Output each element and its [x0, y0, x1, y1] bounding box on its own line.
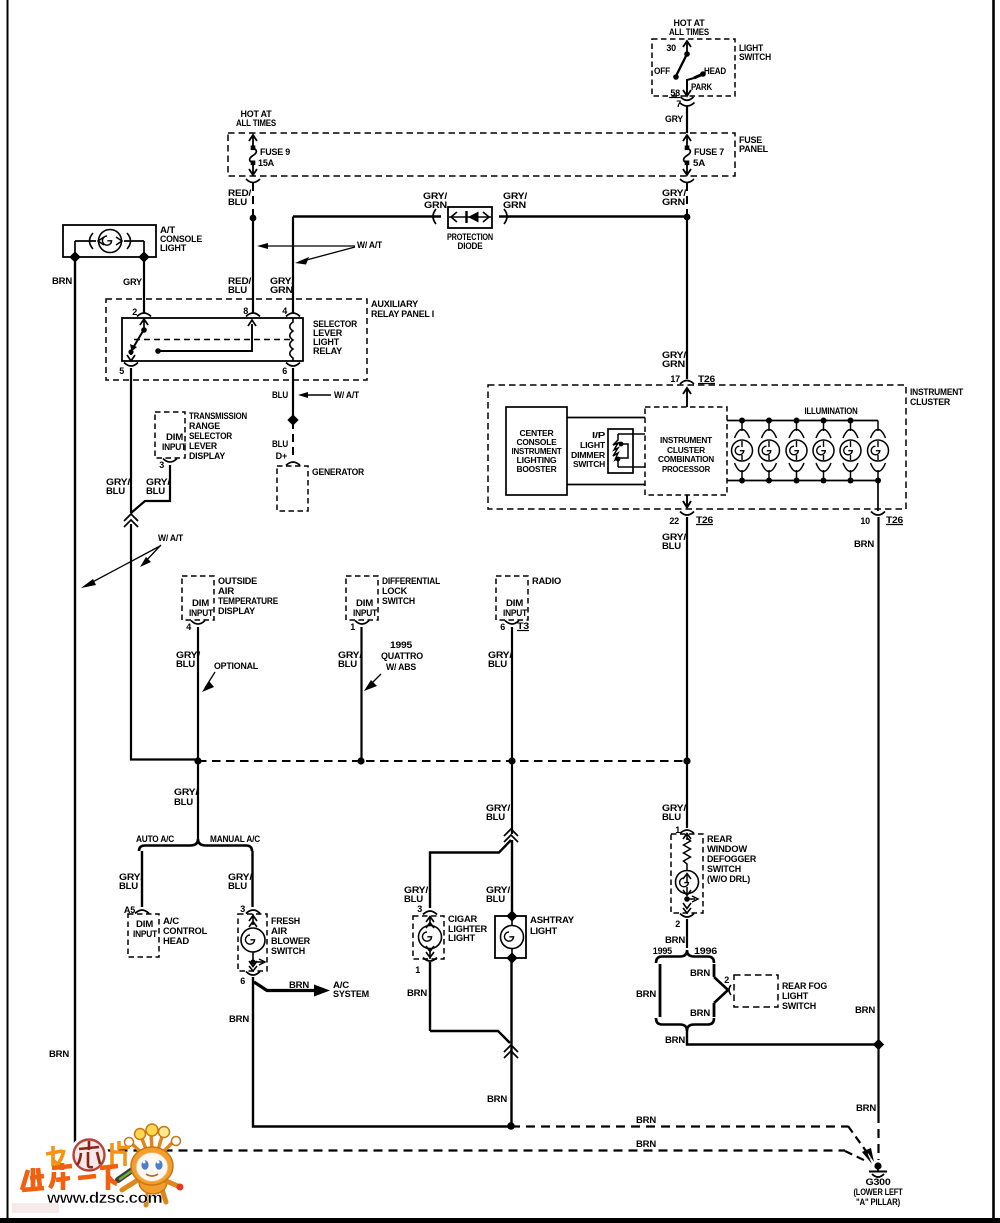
svg-text:DISPLAY: DISPLAY	[218, 606, 255, 616]
relay pin 6	[282, 363, 300, 377]
svg-text:LIGHT: LIGHT	[160, 243, 187, 253]
fuse panel box	[228, 133, 735, 176]
differential lock switch label	[382, 576, 441, 606]
wire BRN left rail (console light to bottom)	[49, 257, 75, 1149]
svg-text:BRN: BRN	[229, 1014, 249, 1024]
svg-text:LIGHT: LIGHT	[448, 933, 476, 943]
svg-text:1: 1	[415, 965, 420, 975]
wire BRN dashed lower run to ground	[511, 1115, 874, 1162]
cigar lighter light label	[448, 914, 488, 943]
inline connector on merged BRN wire	[504, 1045, 518, 1058]
watermark pale band	[12, 1203, 59, 1213]
rear window defogger switch label	[707, 834, 757, 884]
svg-text:SWITCH: SWITCH	[271, 946, 305, 956]
junction dim bus at diff lock	[357, 757, 364, 764]
svg-text:3: 3	[159, 460, 164, 470]
inline connector on GRY/BLU wire	[124, 514, 138, 527]
svg-text:30: 30	[666, 43, 676, 53]
svg-text:ASHTRAY: ASHTRAY	[530, 915, 574, 925]
svg-text:RELAY PANEL I: RELAY PANEL I	[371, 309, 434, 319]
svg-text:AIR: AIR	[271, 926, 288, 936]
junction lamp L5 bottom bus	[848, 478, 854, 484]
note W/ A/T with arrows to wires	[257, 240, 383, 265]
svg-text:HEAD: HEAD	[704, 66, 727, 76]
wire RED/BLU dashed from fuse 9	[228, 183, 253, 217]
svg-text:LEVER: LEVER	[189, 441, 218, 451]
svg-text:BRN: BRN	[854, 539, 874, 549]
cigar lighter light pin 3	[417, 904, 437, 915]
wire branch to cigar lighter	[430, 840, 511, 908]
illumination lamp bus lower	[727, 480, 879, 482]
svg-text:BRN: BRN	[636, 989, 656, 999]
node HOT AT ALL TIMES (light switch feed)	[669, 18, 709, 37]
wire GRY/GRN to instrument cluster pin 17	[662, 217, 687, 379]
junction lamp L2 bottom bus	[766, 478, 772, 484]
svg-text:BLU: BLU	[176, 659, 195, 669]
junction on fuse9 wire	[250, 215, 257, 222]
junction at console light left leg	[69, 251, 80, 262]
junction dim bus at OAT	[194, 757, 201, 764]
svg-text:"A" PILLAR): "A" PILLAR)	[856, 1197, 900, 1207]
illumination lamp L5	[840, 421, 861, 481]
svg-text:(LOWER LEFT: (LOWER LEFT	[854, 1187, 904, 1197]
svg-text:58: 58	[670, 88, 680, 98]
watermark text 维库一下	[22, 1163, 118, 1190]
wire BRN cigar joins ashtray	[430, 1031, 510, 1043]
wire GRY console light to relay pin 2	[123, 257, 144, 313]
fresh air blower switch lamp	[241, 914, 265, 971]
svg-text:RELAY: RELAY	[313, 346, 342, 356]
svg-text:QUATTRO: QUATTRO	[381, 651, 423, 661]
light switch blade OFF contact	[654, 51, 690, 80]
border frame bottom	[0, 1218, 1000, 1223]
booster label	[512, 429, 562, 474]
dim input bus dashed wire	[198, 760, 687, 762]
svg-text:5: 5	[119, 366, 124, 376]
relay switch blade	[127, 319, 148, 361]
svg-text:DIFFERENTIAL: DIFFERENTIAL	[382, 576, 441, 586]
note W/ A/T arrows lower	[81, 533, 184, 588]
connector below fuse 9	[246, 179, 260, 183]
svg-text:LIGHT: LIGHT	[782, 991, 809, 1001]
svg-text:5A: 5A	[693, 158, 706, 168]
mascot head	[131, 1147, 173, 1185]
svg-text:BLU: BLU	[272, 390, 288, 400]
svg-text:BLU: BLU	[119, 881, 138, 891]
wire GRY/GRN right of protection diode	[499, 191, 687, 217]
connector below light switch pin 7	[676, 97, 694, 109]
note 1995 QUATTRO W/ ABS with arrow	[364, 640, 423, 691]
svg-text:1: 1	[350, 622, 355, 632]
svg-text:COMBINATION: COMBINATION	[658, 455, 714, 464]
cluster return arrow processor to pin 22	[683, 495, 691, 508]
junction lamp L2 top bus	[766, 418, 772, 424]
junction lamp L4 top bus	[821, 418, 827, 424]
mascot antennae	[125, 1124, 181, 1155]
svg-text:BLU: BLU	[662, 541, 681, 551]
svg-text:CONSOLE: CONSOLE	[517, 438, 558, 447]
wire BRN dashed left rail run to ground	[75, 1139, 872, 1164]
relay pin 5	[119, 363, 138, 377]
svg-text:BRN: BRN	[855, 1005, 875, 1015]
svg-text:BRN: BRN	[487, 1094, 507, 1104]
light switch pin 58 label	[669, 88, 680, 98]
mascot body	[118, 1168, 184, 1205]
svg-text:W/ A/T: W/ A/T	[334, 390, 360, 400]
A/C control head pin A5	[124, 905, 149, 915]
svg-text:INSTRUMENT: INSTRUMENT	[910, 387, 964, 397]
light switch label	[739, 43, 771, 62]
svg-text:DIODE: DIODE	[458, 241, 483, 251]
svg-text:LIGHTING: LIGHTING	[517, 456, 557, 465]
selector lever light relay K1 inner box	[122, 318, 303, 361]
light switch S1 box	[652, 39, 735, 96]
auxiliary relay panel box	[106, 299, 367, 380]
illumination lamp bus upper	[727, 420, 878, 422]
svg-text:4: 4	[186, 622, 191, 632]
svg-text:RADIO: RADIO	[532, 576, 561, 586]
svg-text:T26: T26	[698, 374, 715, 384]
wire GRY/BLU down to A/C split	[131, 524, 198, 760]
svg-text:INPUT: INPUT	[189, 608, 214, 618]
svg-text:www.dzsc.com: www.dzsc.com	[46, 1190, 162, 1207]
wire BLU dashed to generator	[272, 421, 293, 459]
svg-text:2: 2	[132, 307, 137, 317]
svg-text:22: 22	[669, 516, 679, 526]
defogger switch pin 1	[675, 825, 694, 835]
wire BRN dashed right rail to ground	[877, 1114, 879, 1160]
note BLU / W/ A/T arrow	[272, 390, 360, 400]
fuse panel label	[739, 135, 769, 154]
svg-text:6: 6	[282, 366, 287, 376]
svg-text:BRN: BRN	[52, 276, 72, 286]
svg-text:BRN: BRN	[49, 1049, 69, 1059]
svg-text:3: 3	[417, 904, 422, 914]
cigar lighter light lamp	[419, 916, 442, 959]
center console instrument lighting booster box	[506, 407, 567, 495]
merge brace bottom	[656, 1018, 714, 1031]
wire BRN 1996 branch lower	[690, 1003, 714, 1018]
instrument cluster combination processor box	[645, 407, 727, 495]
junction fuse7 wire / diode wire	[684, 214, 691, 221]
fuse F9 15A	[249, 135, 290, 175]
svg-text:RANGE: RANGE	[189, 421, 220, 431]
wire BRN 1996 branch upper	[690, 964, 714, 978]
selector lever light relay label	[313, 319, 358, 356]
junction lamp L3 top bus	[794, 418, 800, 424]
svg-text:17: 17	[670, 374, 680, 384]
svg-text:BLOWER: BLOWER	[271, 936, 311, 946]
I/P light dimmer switch label	[571, 431, 606, 469]
wire GRY/BLU to ashtray light	[511, 840, 513, 916]
A/C control head DIM INPUT box	[128, 914, 159, 957]
svg-text:CENTER: CENTER	[520, 429, 554, 438]
fresh air blower switch label	[271, 916, 311, 956]
svg-text:CONTROL: CONTROL	[163, 926, 208, 936]
svg-text:6: 6	[500, 622, 505, 632]
svg-text:BLU: BLU	[662, 812, 681, 822]
svg-text:BRN: BRN	[289, 980, 309, 990]
svg-text:BRN: BRN	[665, 1035, 685, 1045]
OAT display label	[218, 576, 278, 616]
wire GRY/GRN down to relay pin 4	[270, 217, 295, 314]
svg-text:BLU: BLU	[228, 881, 247, 891]
svg-text:INSTRUMENT: INSTRUMENT	[512, 447, 562, 456]
svg-text:GRY: GRY	[123, 277, 142, 287]
instrument cluster pin 10 T26	[860, 512, 903, 527]
svg-text:INPUT: INPUT	[162, 442, 187, 452]
diff lock DIM INPUT terminal pin 1	[350, 598, 377, 632]
svg-text:6: 6	[240, 976, 245, 986]
svg-text:DIM: DIM	[506, 598, 523, 608]
illumination lamp L1	[732, 421, 753, 481]
wire BRN from ashtray light	[487, 958, 512, 1126]
wire GRY/BLU from display pin 3	[131, 465, 171, 513]
fresh air blower switch pin 3	[240, 904, 260, 914]
A/T console light bulb	[75, 230, 144, 257]
svg-text:GRY/: GRY/	[174, 787, 199, 797]
svg-text:FUSE 9: FUSE 9	[260, 147, 290, 157]
wire booster to processor lower	[567, 484, 645, 486]
wire GRY/BLU auto A/C branch	[119, 851, 144, 907]
watermark magnifier with 芯	[72, 1138, 107, 1173]
svg-text:D+: D+	[276, 451, 287, 461]
inline connector on radio wire below bus	[486, 761, 518, 842]
transmission display label	[189, 411, 247, 461]
wire GRY/BLU from OAT display	[176, 627, 201, 761]
wire from lamp bus down to pin 10	[877, 480, 879, 511]
svg-text:CLUSTER: CLUSTER	[667, 446, 705, 455]
svg-text:BLU: BLU	[272, 439, 288, 449]
svg-text:SWITCH: SWITCH	[573, 460, 605, 469]
note OPTIONAL with arrow	[202, 661, 259, 692]
svg-text:G300: G300	[866, 1177, 891, 1187]
svg-text:BLU: BLU	[486, 812, 505, 822]
generator box	[277, 466, 308, 511]
svg-text:T26: T26	[696, 515, 713, 525]
svg-text:REAR FOG: REAR FOG	[782, 981, 827, 991]
svg-text:BLU: BLU	[106, 486, 125, 496]
rear window defogger switch box	[671, 834, 703, 913]
svg-text:BLU: BLU	[488, 659, 507, 669]
wire GRY/GRN left of protection diode	[293, 191, 448, 217]
svg-text:WINDOW: WINDOW	[707, 844, 748, 854]
svg-text:LIGHT: LIGHT	[580, 441, 605, 450]
relay actuation dashed link	[134, 339, 290, 341]
wire GRY/BLU from diff lock switch	[338, 627, 363, 761]
instrument cluster box	[488, 385, 906, 509]
lamp: A/T console light box	[63, 225, 156, 257]
cigar lighter light box	[413, 916, 444, 959]
svg-text:OPTIONAL: OPTIONAL	[214, 661, 259, 671]
svg-text:OFF: OFF	[654, 66, 671, 76]
svg-text:LOCK: LOCK	[382, 586, 408, 596]
wire GRY/BLU manual A/C branch	[228, 851, 253, 907]
illumination lamp L6	[868, 421, 889, 481]
watermark text 片	[112, 1141, 130, 1166]
label GRY/BLU cigar branch	[404, 885, 429, 904]
svg-text:I/P: I/P	[592, 431, 606, 440]
svg-text:AUTO A/C: AUTO A/C	[136, 834, 175, 844]
svg-text:AIR: AIR	[218, 586, 235, 596]
border frame left	[7, 0, 9, 1223]
svg-text:GRN: GRN	[424, 200, 447, 210]
svg-text:A/C: A/C	[163, 916, 180, 926]
ashtray light label	[530, 915, 574, 936]
transmission range selector lever display box	[155, 412, 185, 458]
wire booster to processor upper	[567, 417, 645, 419]
relay pin 4	[282, 306, 300, 317]
svg-text:W/ A/T: W/ A/T	[357, 240, 383, 250]
wire BRN from cigar lighter	[407, 962, 430, 1031]
ashtray light box	[495, 916, 526, 958]
node HOT AT ALL TIMES (fuse 9 feed)	[236, 109, 276, 128]
svg-text:BLU: BLU	[174, 797, 193, 807]
svg-text:SWITCH: SWITCH	[382, 596, 415, 606]
OAT DIM INPUT terminal pin 4	[186, 598, 213, 632]
svg-text:GRN: GRN	[662, 197, 685, 207]
wire GRY/BLU cluster pin 22 down to dim bus	[662, 517, 687, 761]
transmission display DIM INPUT terminal	[159, 432, 186, 470]
svg-text:(W/O DRL): (W/O DRL)	[707, 874, 750, 884]
wire GRY/GRN dashed from fuse 7	[662, 183, 687, 216]
auxiliary relay panel label	[371, 299, 434, 319]
svg-text:3: 3	[240, 904, 245, 914]
svg-text:MANUAL A/C: MANUAL A/C	[210, 834, 261, 844]
svg-text:BLU: BLU	[146, 486, 165, 496]
svg-text:PARK: PARK	[691, 82, 713, 92]
illumination lamp L4	[813, 421, 834, 481]
svg-text:BRN: BRN	[665, 935, 685, 945]
ground G300	[854, 1162, 904, 1207]
rear fog light switch blade	[714, 975, 731, 1003]
svg-text:FRESH: FRESH	[271, 916, 300, 926]
svg-text:OUTSIDE: OUTSIDE	[218, 576, 257, 586]
split 1995 / 1996 labels	[653, 946, 717, 956]
differential lock switch box	[346, 576, 378, 620]
border frame right	[992, 0, 995, 1223]
radio DIM INPUT terminal pin 6 T3	[500, 598, 529, 632]
junction lamp L4 bottom bus	[821, 478, 827, 484]
svg-text:BLU: BLU	[228, 197, 247, 207]
svg-text:W/ A/T: W/ A/T	[158, 533, 184, 543]
svg-text:7: 7	[676, 99, 681, 109]
defogger resistor	[683, 834, 691, 871]
svg-text:CIGAR: CIGAR	[448, 914, 478, 924]
svg-text:INSTRUMENT: INSTRUMENT	[660, 436, 712, 445]
wire BRN bottom run to junction	[253, 1125, 510, 1127]
junction dim bus at cluster wire	[683, 757, 690, 764]
svg-text:PROCESSOR: PROCESSOR	[662, 465, 710, 474]
A/C control head label	[163, 916, 208, 946]
A/T console light label	[160, 225, 202, 253]
light switch PARK contact wire to pin 58	[683, 78, 713, 96]
wire GRY/BLU from relay pin 5	[106, 368, 131, 513]
wire GRY/BLU from radio	[488, 627, 513, 761]
instrument cluster pin 22 T26	[669, 512, 713, 527]
cigar lighter light pin 1	[415, 958, 437, 976]
svg-text:1995: 1995	[390, 640, 412, 650]
svg-text:DIM: DIM	[356, 598, 373, 608]
junction lamp L1 bottom bus	[739, 478, 745, 484]
svg-text:HEAD: HEAD	[163, 936, 190, 946]
svg-text:15A: 15A	[258, 158, 275, 168]
svg-text:BOOSTER: BOOSTER	[517, 465, 557, 474]
junction lamp L3 bottom bus	[794, 478, 800, 484]
svg-text:DEFOGGER: DEFOGGER	[707, 854, 757, 864]
svg-text:INPUT: INPUT	[353, 608, 378, 618]
svg-text:GRN: GRN	[270, 285, 293, 295]
svg-text:SWITCH: SWITCH	[782, 1001, 816, 1011]
svg-text:BRN: BRN	[856, 1103, 876, 1113]
svg-text:SWITCH: SWITCH	[739, 52, 771, 62]
wire BRN from blower switch down	[229, 977, 253, 1125]
I/P light dimmer switch (rheostat)	[608, 429, 645, 473]
outside air temperature display box	[182, 576, 214, 620]
svg-text:BLU: BLU	[404, 894, 423, 904]
rear fog light switch label	[782, 981, 827, 1011]
svg-text:SWITCH: SWITCH	[707, 864, 741, 874]
instrument cluster pin 17 T26	[670, 374, 715, 384]
svg-text:1995: 1995	[653, 946, 672, 956]
connector below fuse 7	[680, 179, 694, 183]
junction on generator wire	[287, 414, 298, 425]
wire BRN cluster pin 10 down	[854, 517, 879, 1114]
split brace AUTO A/C / MANUAL A/C	[136, 834, 261, 851]
svg-text:ALL TIMES: ALL TIMES	[236, 118, 276, 128]
svg-text:DIM: DIM	[192, 598, 209, 608]
junction lamp L6 bottom bus	[875, 478, 881, 484]
svg-text:GRY: GRY	[665, 114, 683, 124]
svg-text:INPUT: INPUT	[503, 608, 528, 618]
junction dim bus at radio	[508, 757, 515, 764]
watermark text 找	[46, 1146, 64, 1166]
junction lamp L5 top bus	[848, 418, 854, 424]
svg-text:BRN: BRN	[690, 1008, 710, 1018]
light switch HEAD contact	[694, 66, 727, 78]
svg-text:DISPLAY: DISPLAY	[189, 451, 225, 461]
svg-text:LIGHT: LIGHT	[530, 926, 558, 936]
relay coil	[290, 318, 293, 361]
defogger lamp	[676, 871, 699, 914]
radio box	[496, 576, 528, 620]
svg-text:ILLUMINATION: ILLUMINATION	[805, 406, 858, 416]
svg-text:DIM: DIM	[136, 919, 153, 929]
wire BLU from relay pin 6	[292, 368, 294, 417]
svg-text:CLUSTER: CLUSTER	[910, 397, 951, 407]
wire GRY/BLU from bus down to A/C split	[174, 761, 199, 839]
svg-text:DIMMER: DIMMER	[571, 451, 605, 460]
svg-text:DIM: DIM	[166, 432, 183, 442]
svg-text:W/ ABS: W/ ABS	[386, 662, 416, 672]
branch arrow to A/C SYSTEM	[254, 980, 369, 999]
svg-text:REAR: REAR	[707, 834, 733, 844]
label GRY/BLU ashtray branch	[486, 885, 511, 904]
junction BRN right rail	[873, 1039, 884, 1050]
svg-text:PANEL: PANEL	[739, 144, 769, 154]
svg-text:TEMPERATURE: TEMPERATURE	[218, 596, 278, 606]
wire GRY/BLU bus to defogger switch	[662, 761, 687, 828]
junction at console light right leg	[138, 251, 149, 262]
watermark dzsc.com logo	[12, 1124, 184, 1213]
wire RED/BLU solid to relay pin 8	[228, 218, 253, 313]
svg-text:2: 2	[724, 975, 729, 985]
relay contact wire to pin 8	[155, 320, 256, 354]
svg-text:TRANSMISSION: TRANSMISSION	[189, 411, 247, 421]
svg-text:SELECTOR: SELECTOR	[189, 431, 233, 441]
rear fog light switch box	[734, 975, 778, 1007]
wire GRY from light switch to fuse panel	[665, 106, 687, 133]
